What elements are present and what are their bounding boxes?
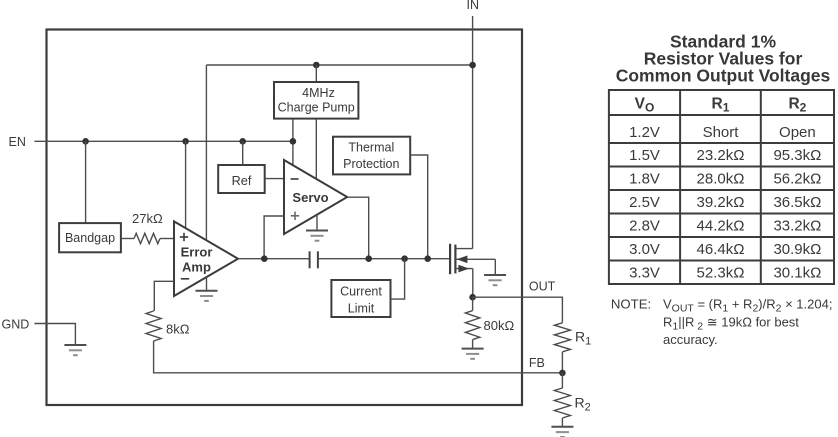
svg-text:56.2kΩ: 56.2kΩ bbox=[773, 171, 821, 188]
error amp ground stem bbox=[206, 277, 208, 291]
capacitor bbox=[310, 251, 318, 268]
resistor R1 bbox=[554, 323, 570, 352]
node junction EN / bandgap bbox=[82, 138, 89, 145]
node junction EN / error amp bbox=[182, 138, 189, 145]
wire top rail to charge pump box bbox=[315, 65, 317, 82]
svg-text:OUT: OUT bbox=[529, 279, 556, 293]
node junction OUT bbox=[469, 294, 476, 301]
drain stub bbox=[455, 248, 472, 250]
svg-text:27kΩ: 27kΩ bbox=[132, 211, 163, 226]
svg-text:Current: Current bbox=[340, 285, 382, 299]
servo plus pin bbox=[291, 215, 299, 217]
node junction top rail / IN bbox=[469, 62, 476, 69]
ground (servo) bbox=[306, 231, 328, 241]
resistor 8k bbox=[146, 311, 161, 341]
block 4MHz Charge Pump bbox=[274, 82, 358, 119]
svg-text:Limit: Limit bbox=[348, 301, 375, 315]
block Thermal Protection bbox=[333, 137, 410, 175]
svg-text:Common Output Voltages: Common Output Voltages bbox=[616, 66, 831, 86]
svg-text:VOUT = (R1 + R2)/R2 × 1.204;: VOUT = (R1 + R2)/R2 × 1.204; bbox=[663, 297, 832, 315]
wire 8k to FB line bbox=[154, 341, 563, 373]
svg-text:95.3kΩ: 95.3kΩ bbox=[773, 147, 821, 164]
svg-text:3.0V: 3.0V bbox=[629, 241, 660, 258]
wire R2 to ground bbox=[561, 418, 563, 427]
transistor pass PMOS bbox=[450, 244, 495, 274]
svg-text:2.5V: 2.5V bbox=[629, 194, 660, 211]
svg-text:Amp: Amp bbox=[182, 259, 211, 274]
svg-text:GND: GND bbox=[2, 317, 30, 331]
svg-text:2.8V: 2.8V bbox=[629, 218, 660, 235]
svg-text:39.2kΩ: 39.2kΩ bbox=[697, 194, 745, 211]
servo ground stem bbox=[316, 215, 318, 231]
svg-text:IN: IN bbox=[467, 0, 480, 12]
svg-text:R2: R2 bbox=[788, 95, 806, 114]
svg-text:33.2kΩ: 33.2kΩ bbox=[773, 218, 821, 235]
ground (mosfet body) bbox=[484, 275, 506, 285]
node junction current limit bbox=[401, 255, 408, 262]
wire 80k from OUT node bbox=[472, 297, 474, 310]
channel bar bbox=[454, 245, 456, 274]
svg-text:1.5V: 1.5V bbox=[629, 147, 660, 164]
error amp minus pin bbox=[181, 278, 189, 280]
wire thermal protection to gate line bbox=[410, 155, 428, 259]
svg-text:VO: VO bbox=[635, 95, 655, 114]
wire servo output down to gate line bbox=[348, 197, 369, 259]
node junction EN / charge pump/servo bbox=[290, 138, 297, 145]
wire error amp output (gate drive line) bbox=[238, 258, 310, 260]
wire EN down to ref box bbox=[242, 141, 244, 165]
wire body to ground bbox=[494, 259, 496, 275]
wire EN horizontal bbox=[34, 140, 293, 142]
wire charge pump output down to error amp top bbox=[205, 65, 207, 240]
wire capacitor to gate bbox=[318, 258, 450, 260]
svg-text:1.8V: 1.8V bbox=[629, 171, 660, 188]
node junction top rail / charge pump bbox=[313, 62, 320, 69]
svg-text:28.0kΩ: 28.0kΩ bbox=[697, 171, 745, 188]
table body rows bbox=[629, 124, 821, 282]
wire EN down to error amp top edge bbox=[185, 141, 187, 228]
block Current Limit bbox=[331, 280, 390, 317]
svg-text:Charge Pump: Charge Pump bbox=[278, 100, 355, 114]
svg-text:4MHz: 4MHz bbox=[302, 86, 335, 100]
IC boundary box bbox=[47, 30, 523, 406]
body stub with arrow bbox=[455, 258, 495, 260]
table title bbox=[616, 32, 831, 86]
svg-text:Ref: Ref bbox=[232, 174, 252, 188]
error amp plus pin bbox=[180, 236, 188, 238]
svg-text:80kΩ: 80kΩ bbox=[484, 318, 515, 333]
resistor R2 bbox=[554, 388, 570, 418]
svg-text:R2: R2 bbox=[575, 395, 591, 414]
wire OUT line bbox=[473, 297, 563, 323]
svg-text:52.3kΩ: 52.3kΩ bbox=[697, 265, 745, 282]
svg-text:44.2kΩ: 44.2kΩ bbox=[697, 218, 745, 235]
source stub with arrow bbox=[455, 268, 472, 270]
svg-text:Bandgap: Bandgap bbox=[65, 231, 115, 245]
op-amp Error Amp bbox=[174, 221, 238, 296]
svg-text:36.5kΩ: 36.5kΩ bbox=[773, 194, 821, 211]
wire charge pump to servo top edge bbox=[315, 120, 317, 179]
svg-text:3.3V: 3.3V bbox=[629, 265, 660, 282]
svg-text:Protection: Protection bbox=[343, 157, 399, 171]
block Ref bbox=[218, 165, 265, 193]
svg-text:Short: Short bbox=[703, 124, 740, 141]
wire error amp minus input bbox=[154, 281, 174, 311]
wire charge pump supply (top rail y=65) bbox=[206, 64, 472, 66]
svg-text:30.9kΩ: 30.9kΩ bbox=[773, 241, 821, 258]
block Bandgap bbox=[59, 223, 121, 252]
node junction FB bbox=[559, 370, 566, 377]
svg-text:R1: R1 bbox=[575, 329, 591, 348]
svg-text:accuracy.: accuracy. bbox=[663, 332, 718, 347]
wire charge pump to EN / servo top bbox=[292, 120, 294, 165]
svg-text:23.2kΩ: 23.2kΩ bbox=[697, 147, 745, 164]
resistor 27k bbox=[121, 233, 174, 243]
svg-text:Open: Open bbox=[779, 124, 816, 141]
ground (R2) bbox=[551, 427, 573, 437]
wire current limit to gate line bbox=[391, 259, 405, 299]
svg-text:NOTE:: NOTE: bbox=[611, 297, 651, 312]
svg-text:Thermal: Thermal bbox=[348, 141, 394, 155]
svg-text:Error: Error bbox=[181, 244, 213, 259]
svg-text:R1||R 2 ≅ 19kΩ for best: R1||R 2 ≅ 19kΩ for best bbox=[663, 314, 799, 332]
node junction servo+ bbox=[261, 255, 268, 262]
wire FB node to R2 bbox=[561, 373, 563, 388]
resistor 80k bbox=[465, 311, 479, 340]
table header row bbox=[635, 95, 807, 114]
table grid bbox=[609, 90, 834, 284]
node junction servo out bbox=[365, 255, 372, 262]
wire EN down to bandgap bbox=[85, 141, 87, 223]
wire ref to servo - input bbox=[265, 178, 285, 180]
svg-text:R1: R1 bbox=[712, 95, 730, 114]
node junction EN / ref bbox=[239, 138, 246, 145]
wire IN vertical bbox=[472, 16, 474, 249]
ground (error amp) bbox=[196, 291, 218, 301]
svg-text:8kΩ: 8kΩ bbox=[166, 322, 190, 337]
svg-text:46.4kΩ: 46.4kΩ bbox=[697, 241, 745, 258]
note text bbox=[611, 297, 833, 348]
svg-text:30.1kΩ: 30.1kΩ bbox=[773, 265, 821, 282]
gate bar bbox=[449, 244, 451, 274]
wire R1 to FB node bbox=[561, 352, 563, 373]
ground (80k) bbox=[462, 349, 484, 359]
node junction thermal bbox=[424, 255, 431, 262]
ground (GND pin) bbox=[64, 345, 86, 355]
servo minus pin bbox=[291, 178, 299, 180]
svg-text:1.2V: 1.2V bbox=[629, 124, 660, 141]
wire GND bbox=[34, 324, 75, 346]
wire source down to OUT node bbox=[472, 269, 474, 298]
svg-text:EN: EN bbox=[9, 135, 26, 149]
wire 80k to ground bbox=[472, 340, 474, 349]
wire servo + input from output line bbox=[264, 216, 284, 259]
op-amp Servo bbox=[284, 160, 347, 234]
svg-text:FB: FB bbox=[529, 356, 545, 370]
svg-text:Servo: Servo bbox=[292, 190, 328, 205]
